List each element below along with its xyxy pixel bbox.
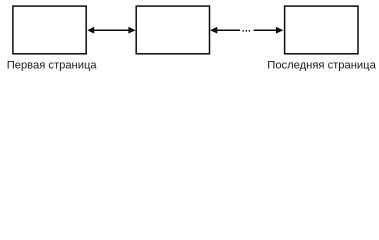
ellipsis dots on middle arrow xyxy=(243,30,250,32)
box: first page xyxy=(13,6,86,54)
box: middle page xyxy=(136,6,209,54)
svg-text:Первая страница: Первая страница xyxy=(7,59,98,71)
box: last page xyxy=(285,6,358,54)
svg-text:Последняя страница: Последняя страница xyxy=(267,59,376,71)
wire: double-headed arrow with gap between box2 and box3 xyxy=(210,27,283,34)
wire: double-headed arrow between box1 and box2 xyxy=(87,27,135,34)
